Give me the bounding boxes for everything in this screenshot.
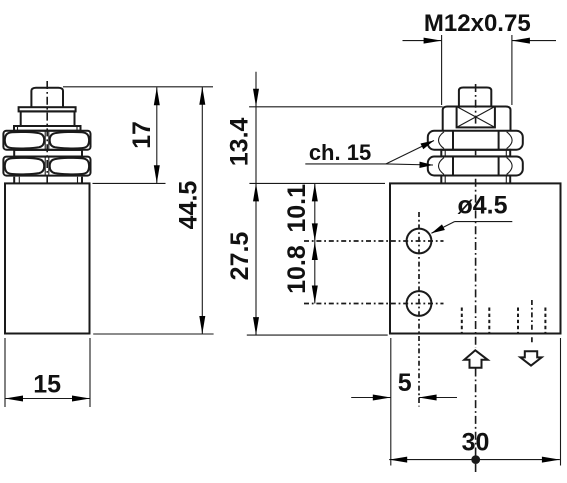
svg-text:15: 15 xyxy=(33,371,61,399)
svg-text:44.5: 44.5 xyxy=(174,181,202,230)
svg-text:5: 5 xyxy=(398,369,412,397)
svg-text:M12x0.75: M12x0.75 xyxy=(424,10,531,37)
svg-text:27.5: 27.5 xyxy=(226,232,254,281)
svg-text:30: 30 xyxy=(462,428,490,456)
svg-text:ch. 15: ch. 15 xyxy=(309,140,371,165)
svg-text:17: 17 xyxy=(128,121,156,149)
svg-text:10.1: 10.1 xyxy=(283,184,311,233)
svg-text:10.8: 10.8 xyxy=(283,245,311,294)
svg-text:ø4.5: ø4.5 xyxy=(457,191,507,219)
svg-text:13.4: 13.4 xyxy=(225,117,253,166)
